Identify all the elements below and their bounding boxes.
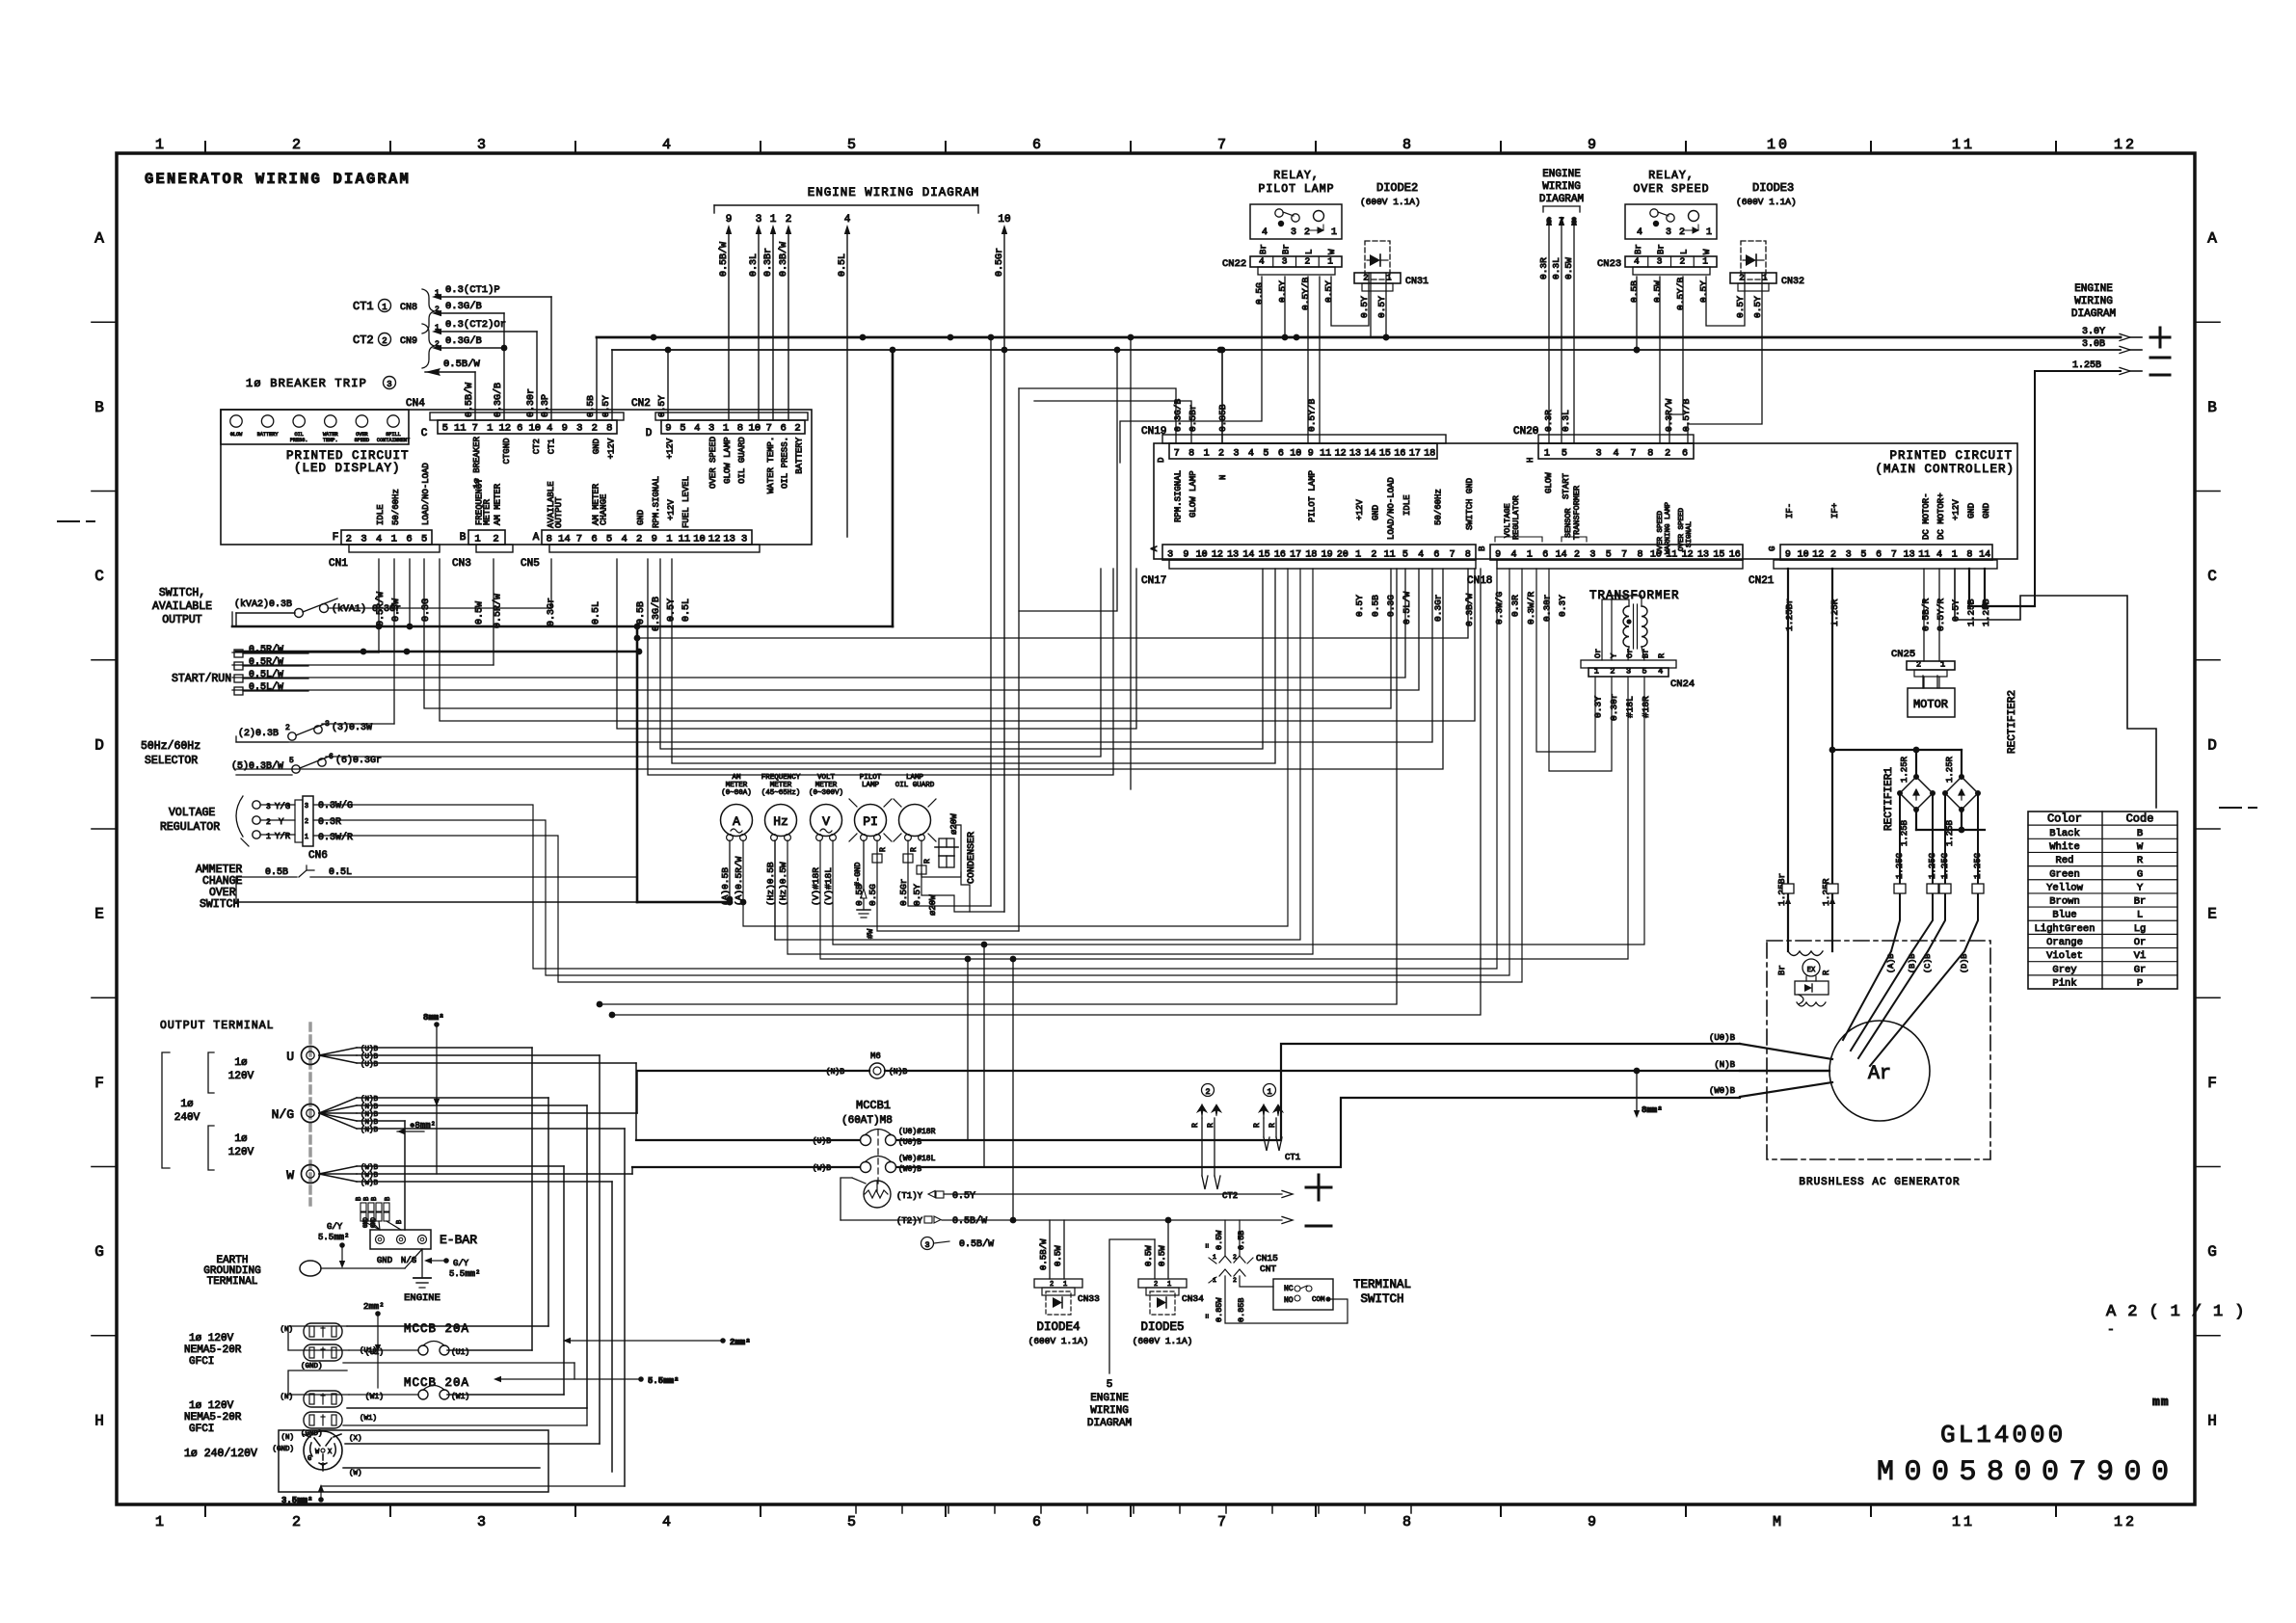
svg-text:2: 2 <box>1233 1254 1237 1261</box>
svg-text:MCCB 20A: MCCB 20A <box>404 1376 469 1390</box>
svg-text:9: 9 <box>1495 550 1501 561</box>
svg-text:NEMA5-20R: NEMA5-20R <box>184 1412 242 1423</box>
svg-text:B: B <box>1478 545 1487 551</box>
svg-text:9: 9 <box>652 534 657 545</box>
svg-text:(W)B: (W)B <box>813 1164 831 1173</box>
svg-text:0.3W/R: 0.3W/R <box>1526 591 1536 625</box>
CN2 pin function labels <box>665 437 804 493</box>
svg-text:0.5L: 0.5L <box>592 601 602 625</box>
wire 0.3W selector to CN1-1 <box>322 559 394 724</box>
svg-text:BATTERY: BATTERY <box>795 437 805 473</box>
svg-text:START/RUN: START/RUN <box>172 673 231 685</box>
svg-text:0.5W: 0.5W <box>1158 1245 1167 1266</box>
svg-text:METER: METER <box>770 782 792 789</box>
svg-text:11: 11 <box>1952 137 1975 153</box>
svg-text:1ø BREAKER TRIP: 1ø BREAKER TRIP <box>246 377 367 390</box>
main breaker MCCB1 60AT <box>813 1099 936 1187</box>
svg-text:1: 1 <box>266 833 271 841</box>
svg-text:Y: Y <box>2137 882 2144 893</box>
svg-text:(N): (N) <box>280 1434 294 1442</box>
svg-text:CN24: CN24 <box>1670 678 1695 690</box>
diode DIODE2 with connector CN31 <box>1354 181 1428 318</box>
svg-text:Y: Y <box>279 817 284 827</box>
svg-text:10: 10 <box>998 214 1010 226</box>
svg-text:1: 1 <box>305 834 308 841</box>
svg-text:0.3G/B: 0.3G/B <box>445 301 482 312</box>
svg-text:2: 2 <box>1205 1087 1210 1097</box>
svg-text:13: 13 <box>1697 550 1709 561</box>
svg-text:GFCI: GFCI <box>189 1356 214 1368</box>
svg-text:10: 10 <box>749 423 761 435</box>
svg-text:(0~80A): (0~80A) <box>721 789 752 797</box>
svg-text:REGULATOR: REGULATOR <box>160 821 220 834</box>
svg-text:1.25B: 1.25B <box>2072 360 2101 371</box>
svg-text:2: 2 <box>285 724 290 732</box>
svg-text:3: 3 <box>1167 550 1173 561</box>
svg-text:1.25G: 1.25G <box>1973 853 1983 879</box>
svg-text:+12V: +12V <box>1355 499 1365 520</box>
svg-text:0.5W: 0.5W <box>475 601 486 625</box>
svg-text:3: 3 <box>741 534 747 545</box>
printed circuit main controller board outline <box>1154 443 2017 559</box>
connector CN19 pin strip <box>1141 426 1446 463</box>
svg-text:1.25G: 1.25G <box>1928 853 1937 879</box>
svg-text:3.0B: 3.0B <box>2082 339 2105 350</box>
engine wiring diagram callout bracket (top) <box>714 186 979 213</box>
svg-text:ø20W: ø20W <box>949 813 959 835</box>
svg-text:(W): (W) <box>349 1470 362 1477</box>
svg-text:16: 16 <box>1394 449 1405 460</box>
wire (U)B to MCCB1 <box>636 1139 860 1141</box>
CN17 pin function labels <box>1355 477 1475 540</box>
diode DIODE5 with connector CN34 <box>1133 1217 1204 1346</box>
svg-text:1ø: 1ø <box>180 1099 193 1110</box>
meter wire 0.5B <box>854 840 865 906</box>
meter wire (A)0.5B <box>720 840 731 906</box>
svg-text:GLOW: GLOW <box>230 432 243 438</box>
wire to engine harness pin 1 (0.3Br) <box>763 214 777 420</box>
wire pilot 0.5G run <box>877 840 1019 931</box>
svg-text:1: 1 <box>1213 1254 1216 1261</box>
wire start/run row4 0.5L/W <box>232 569 1419 690</box>
svg-text:OVER SPEED: OVER SPEED <box>1657 510 1665 554</box>
svg-text:(600V 1.1A): (600V 1.1A) <box>1360 197 1421 207</box>
breaker trip source (3) 0.5B/W <box>921 1237 1014 1251</box>
svg-text:2: 2 <box>1680 256 1686 267</box>
8mm2 marker N/G <box>397 1121 436 1134</box>
svg-text:CN23: CN23 <box>1597 258 1621 270</box>
svg-text:A: A <box>533 532 540 544</box>
svg-text:IF+: IF+ <box>1830 503 1840 519</box>
svg-text:4: 4 <box>1637 227 1642 238</box>
svg-text:5: 5 <box>847 1514 859 1530</box>
svg-text:13: 13 <box>1349 449 1361 460</box>
svg-text:0.3Y: 0.3Y <box>1592 696 1603 718</box>
svg-text:ENGINE: ENGINE <box>404 1292 441 1304</box>
connector CN15 CNT <box>1204 1220 1278 1322</box>
svg-text:3: 3 <box>266 803 271 811</box>
svg-text:B: B <box>2137 828 2143 839</box>
3.0B - terminal <box>2082 339 2170 358</box>
wire 1.25B heavy to right <box>1969 371 2035 609</box>
svg-text:VOLTAGE: VOLTAGE <box>169 807 215 819</box>
svg-text:4: 4 <box>1658 667 1663 677</box>
trip wire (T2)Y 0.5B/W to - <box>841 1215 1331 1227</box>
svg-text:+12V: +12V <box>665 438 675 459</box>
meter/lamp LAMP OIL GUARD <box>894 774 936 841</box>
wire 0.3(CT1)P from CN8-1 to CN4 pin4 <box>432 284 551 420</box>
output terminal caption <box>160 1020 275 1032</box>
wire ground return run b <box>609 569 1481 1018</box>
wire CN31-1 to bus <box>1371 273 1389 340</box>
svg-text:(N)B: (N)B <box>826 1068 844 1077</box>
wire run bus junction b <box>1001 347 1008 354</box>
svg-text:(Hz)0.5B: (Hz)0.5B <box>765 862 776 906</box>
svg-text:2: 2 <box>636 534 642 545</box>
svg-text:0.5Y: 0.5Y <box>1323 280 1334 303</box>
current transformer CT2 loop <box>1191 1084 1238 1202</box>
wire CN22-1 to CN31 <box>1331 273 1369 326</box>
svg-text:A: A <box>1150 545 1160 551</box>
svg-text:+12V: +12V <box>606 438 616 459</box>
wire transformer 0.3Y run <box>1536 569 1595 752</box>
svg-text:4: 4 <box>376 534 382 545</box>
svg-text:1: 1 <box>155 1514 167 1530</box>
output terminal W <box>286 1165 319 1184</box>
wire 1.25G phase (C)B <box>1923 793 1951 973</box>
svg-text:(W)B: (W)B <box>360 1180 379 1187</box>
meter/lamp AM METER <box>721 774 753 840</box>
svg-text:CN17: CN17 <box>1141 575 1166 587</box>
svg-text:(GND): (GND) <box>301 1363 323 1370</box>
twist-lock receptacle 240/120V <box>184 1431 362 1477</box>
svg-text:50Hz/60Hz: 50Hz/60Hz <box>141 740 200 753</box>
svg-text:2: 2 <box>1371 550 1376 561</box>
wire 0.3G/B from CN8-2 to CTGND <box>432 301 504 420</box>
svg-text:E: E <box>94 906 104 923</box>
start/run terminals with wires <box>172 644 308 695</box>
8mm2 ground wire marker <box>423 1013 444 1174</box>
svg-text:OIL GUARD: OIL GUARD <box>895 782 935 789</box>
svg-text:CNT: CNT <box>1260 1264 1276 1274</box>
svg-text:0.5B/W: 0.5B/W <box>718 242 730 277</box>
svg-text:2: 2 <box>382 336 387 346</box>
svg-text:11: 11 <box>1384 550 1396 561</box>
svg-text:(5)0.3B/W: (5)0.3B/W <box>231 760 283 772</box>
svg-text:Gr: Gr <box>2134 964 2147 975</box>
svg-text:1: 1 <box>1706 227 1712 238</box>
bus wire 3.0B (-) <box>601 347 2121 420</box>
svg-text:OVER SPEED: OVER SPEED <box>708 437 718 489</box>
svg-text:Color: Color <box>2047 812 2082 826</box>
brushless AC generator enclosure <box>1767 941 1990 1188</box>
wire 0.3W/G CN6 run <box>313 569 1497 969</box>
wire run bus down a <box>990 337 992 906</box>
svg-text:Br: Br <box>2134 896 2147 908</box>
svg-text:0.3(CT1)P: 0.3(CT1)P <box>445 284 500 296</box>
engine wiring diagram callout 5 (bottom) <box>1087 1379 1132 1429</box>
svg-text:DIAGRAM: DIAGRAM <box>2071 308 2116 320</box>
svg-text:0.5Gr: 0.5Gr <box>898 878 909 906</box>
wire 1.25R bus to rectifiers <box>1829 569 1962 951</box>
svg-text:GLOW LAMP: GLOW LAMP <box>1188 470 1198 518</box>
svg-text:LOAD/NO-LOAD: LOAD/NO-LOAD <box>421 463 431 525</box>
svg-text:G: G <box>2207 1243 2217 1261</box>
svg-text:(GND): (GND) <box>272 1446 294 1453</box>
svg-text:9: 9 <box>1308 449 1314 460</box>
2mm2 wire marker <box>363 1302 385 1388</box>
svg-text:R: R <box>1657 653 1667 658</box>
svg-text:TERMINAL: TERMINAL <box>207 1276 258 1288</box>
svg-text:WATER TEMP.: WATER TEMP. <box>766 437 776 493</box>
svg-text:1: 1 <box>1386 274 1391 283</box>
wire ground return run a <box>597 569 1397 1007</box>
svg-text:CN3: CN3 <box>452 558 471 570</box>
GFCI receptacle 1 with breaker MCCB 20A <box>184 1322 469 1370</box>
svg-text:R: R <box>1253 1123 1262 1128</box>
CN4 pin function labels <box>472 436 617 489</box>
svg-text:B: B <box>363 1197 371 1201</box>
relay pilot lamp with connector CN22 <box>1222 170 1342 310</box>
svg-text:PRESS.: PRESS. <box>290 438 308 443</box>
svg-text:B: B <box>385 1197 392 1201</box>
svg-text:GND: GND <box>362 1217 369 1228</box>
svg-text:2: 2 <box>292 137 304 153</box>
svg-text:(45~65Hz): (45~65Hz) <box>761 789 801 797</box>
svg-text:MOTOR: MOTOR <box>1913 698 1948 711</box>
svg-text:Grey: Grey <box>2052 964 2076 975</box>
svg-text:Code: Code <box>2126 812 2154 826</box>
svg-text:NC: NC <box>1284 1285 1294 1293</box>
wire 1.25R generator field label <box>1821 878 1831 975</box>
svg-text:10: 10 <box>1798 550 1809 561</box>
svg-text:7: 7 <box>1217 1514 1229 1530</box>
svg-text:(kVA1) 0.3Gr: (kVA1) 0.3Gr <box>332 603 401 615</box>
svg-text:Y/G: Y/G <box>275 802 290 811</box>
svg-text:START: START <box>1562 472 1571 499</box>
svg-text:RELAY,: RELAY, <box>1648 170 1694 182</box>
wire 0.5L CN5 to meters run <box>617 559 1136 729</box>
svg-text:(N)B: (N)B <box>360 1111 379 1119</box>
svg-text:MCCB 20A: MCCB 20A <box>404 1322 469 1336</box>
svg-text:0.5B: 0.5B <box>636 601 647 625</box>
svg-text:IDLE: IDLE <box>1402 494 1412 516</box>
connector CN17 pin strip <box>1141 545 1476 587</box>
svg-text:6: 6 <box>1542 550 1548 561</box>
svg-text:OIL PRESS.: OIL PRESS. <box>781 437 790 489</box>
svg-text:8: 8 <box>1402 1514 1414 1530</box>
svg-text:3: 3 <box>756 214 762 226</box>
svg-text:0.3R: 0.3R <box>318 817 341 828</box>
svg-text:G: G <box>94 1243 104 1261</box>
3.0Y + terminal <box>2082 327 2170 347</box>
transformer (sensor) symbol <box>1589 589 1680 660</box>
svg-text:mm: mm <box>2152 1395 2170 1409</box>
wire 0.5Y CN21-1 staircase <box>1955 569 2156 808</box>
switch available output (kVA selector) <box>152 587 401 626</box>
wire transformer 0.30r run <box>1549 569 1612 771</box>
svg-text:METER: METER <box>483 498 493 525</box>
svg-text:G: G <box>307 1455 311 1463</box>
svg-text:0.5Br: 0.5Br <box>1188 404 1198 432</box>
meter wire label (V)#18L <box>823 867 834 906</box>
GFCI wiring loop box <box>288 1326 349 1395</box>
connector CN20 pin strip <box>1513 426 1694 463</box>
relay over speed with connector CN23 <box>1597 170 1717 310</box>
svg-text:0.3W/G: 0.3W/G <box>1494 591 1505 625</box>
svg-text:White: White <box>2049 841 2080 853</box>
svg-text:9: 9 <box>1183 550 1188 561</box>
meter wire label (A)0.5R/W <box>734 856 744 906</box>
svg-text:CONTAINMENT: CONTAINMENT <box>377 438 410 443</box>
svg-text:0.3P: 0.3P <box>541 394 551 417</box>
svg-text:7: 7 <box>1559 217 1564 227</box>
wire (Hz)0.5B run <box>775 569 1300 940</box>
CN1 pin function labels <box>376 463 431 525</box>
svg-text:1: 1 <box>1527 550 1533 561</box>
svg-text:WARNING LAMP: WARNING LAMP <box>1665 501 1672 554</box>
svg-text:5: 5 <box>1263 449 1268 460</box>
svg-text:2: 2 <box>1154 1281 1158 1289</box>
svg-text:120V: 120V <box>228 1147 254 1158</box>
voltage regulator connector CN6 <box>160 796 353 862</box>
svg-text:B: B <box>356 1197 363 1201</box>
svg-text:12: 12 <box>1335 449 1347 460</box>
svg-text:3: 3 <box>1657 256 1663 267</box>
svg-text:R: R <box>1822 970 1831 975</box>
svg-text:2: 2 <box>1610 667 1615 677</box>
svg-text:0.5Y: 0.5Y <box>656 395 667 417</box>
svg-text:B: B <box>460 532 467 544</box>
wire CN23-3 to CN20 <box>1659 277 1661 443</box>
svg-text:4: 4 <box>694 423 700 435</box>
svg-text:16: 16 <box>1274 550 1286 561</box>
earth grounding terminal <box>203 1249 422 1288</box>
connector CN25 <box>1891 649 1955 677</box>
diode DIODE3 with connector CN32 <box>1730 181 1804 318</box>
svg-text:1.25G: 1.25G <box>1895 853 1905 879</box>
svg-text:2: 2 <box>1665 449 1670 460</box>
svg-text:9: 9 <box>562 423 568 435</box>
svg-text:12: 12 <box>498 423 511 435</box>
LED display indicator lamps row <box>221 410 410 444</box>
svg-text:GLOW: GLOW <box>1544 472 1554 493</box>
svg-text:AVAILABLE: AVAILABLE <box>152 600 212 613</box>
svg-text:A: A <box>2207 230 2217 248</box>
svg-text:6: 6 <box>780 423 786 435</box>
svg-text:Black: Black <box>2049 828 2080 839</box>
ground wire G/Y 5.5mm2 left <box>318 1222 349 1268</box>
svg-text:11: 11 <box>1320 449 1331 460</box>
pilot lamp fuse <box>872 847 888 863</box>
svg-text:D: D <box>1157 458 1166 463</box>
ammeter changeover bus wire <box>236 901 637 903</box>
svg-text:F: F <box>94 1075 104 1092</box>
svg-text:1ø: 1ø <box>234 1133 247 1145</box>
svg-text:(T1)Y: (T1)Y <box>896 1191 923 1201</box>
svg-text:3.5mm²: 3.5mm² <box>281 1496 312 1505</box>
model name GL14000 <box>1940 1421 2066 1450</box>
wire #18L tap to V-meter run <box>983 945 985 1167</box>
svg-text:OUTPUT TERMINAL: OUTPUT TERMINAL <box>160 1020 275 1032</box>
svg-text:D: D <box>2207 736 2217 754</box>
svg-text:(X): (X) <box>349 1435 362 1443</box>
svg-text:9: 9 <box>1785 550 1791 561</box>
svg-text:A2(1/1): A2(1/1) <box>2106 1303 2256 1321</box>
svg-text:2: 2 <box>305 818 308 826</box>
svg-text:0.3W/R: 0.3W/R <box>318 832 353 843</box>
svg-text:ENGINE: ENGINE <box>1090 1393 1129 1404</box>
svg-text:W: W <box>2137 841 2144 853</box>
panel dashed line <box>308 1024 312 1205</box>
(N)B junction 8mm2 <box>1634 1068 1663 1118</box>
svg-text:1: 1 <box>1331 227 1337 238</box>
MCCB1 trip coil T <box>841 1178 891 1220</box>
svg-text:GND: GND <box>636 510 646 525</box>
svg-text:0.3(CT2)Or: 0.3(CT2)Or <box>445 319 506 331</box>
svg-text:6: 6 <box>1876 550 1882 561</box>
svg-text:(N)B: (N)B <box>1714 1060 1735 1070</box>
motor (choke actuator) <box>1908 676 1955 717</box>
svg-text:2: 2 <box>1679 227 1685 238</box>
connector CN18 pin strip <box>1467 545 1743 587</box>
svg-text:8: 8 <box>1966 550 1972 561</box>
meter wire label 0.5G <box>868 884 878 906</box>
svg-text:EX: EX <box>1807 967 1816 974</box>
svg-text:0.5B/W: 0.5B/W <box>1039 1238 1049 1270</box>
svg-text:0.3G/B: 0.3G/B <box>1173 398 1184 432</box>
svg-text:Yellow: Yellow <box>2046 882 2084 893</box>
svg-text:240V: 240V <box>174 1112 200 1124</box>
svg-text:-: - <box>2107 1322 2115 1337</box>
svg-text:15: 15 <box>1713 550 1724 561</box>
svg-text:3: 3 <box>1666 227 1671 238</box>
svg-text:50/60Hz: 50/60Hz <box>1433 489 1443 525</box>
2mm2 supply wire <box>563 1338 751 1347</box>
svg-text:GND: GND <box>377 1256 392 1265</box>
svg-text:CN20: CN20 <box>1513 426 1538 438</box>
svg-text:0.5B/R: 0.5B/R <box>1920 598 1931 631</box>
svg-text:FUEL LEVEL: FUEL LEVEL <box>681 476 691 528</box>
svg-text:8: 8 <box>1402 137 1414 153</box>
svg-text:14: 14 <box>1979 550 1990 561</box>
svg-text:(T2)Y: (T2)Y <box>896 1216 923 1226</box>
svg-text:2: 2 <box>1050 1281 1054 1289</box>
svg-text:#W: #W <box>866 928 875 939</box>
svg-text:4: 4 <box>547 423 552 435</box>
svg-text:18: 18 <box>1305 550 1317 561</box>
svg-text:CN4: CN4 <box>406 398 425 410</box>
svg-text:0.3R: 0.3R <box>1510 595 1521 617</box>
svg-text:3: 3 <box>1596 449 1602 460</box>
svg-text:GND: GND <box>370 1217 377 1228</box>
svg-text:1: 1 <box>1213 1277 1216 1284</box>
generator field coil <box>1788 951 1823 956</box>
svg-text:8: 8 <box>1571 217 1577 227</box>
title text GENERATOR WIRING DIAGRAM <box>145 171 411 188</box>
svg-text:0.5Y: 0.5Y <box>952 1191 975 1202</box>
svg-text:TEMP.: TEMP. <box>323 438 338 443</box>
svg-text:(A)0.5R/W: (A)0.5R/W <box>734 856 744 906</box>
wire (V)#18R run <box>820 677 1628 962</box>
svg-text:(W1): (W1) <box>360 1415 377 1423</box>
svg-text:3: 3 <box>477 137 489 153</box>
svg-text:3: 3 <box>576 423 582 435</box>
svg-text:3: 3 <box>305 803 308 811</box>
connector CN2 row D pin strip <box>631 398 808 439</box>
CN18 wire labels <box>1494 591 1568 625</box>
neutral (N)B heavy wire <box>637 1070 1829 1072</box>
